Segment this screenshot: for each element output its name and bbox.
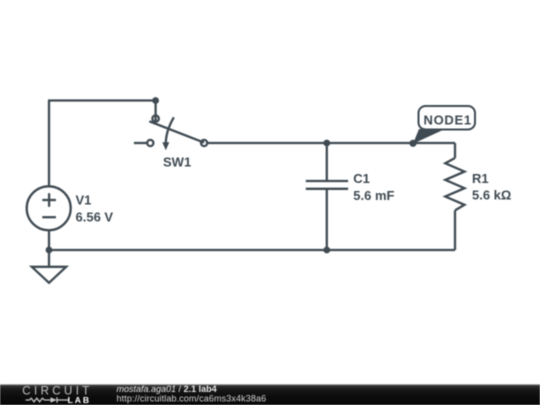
voltage source V1	[27, 186, 71, 230]
svg-text:C1: C1	[353, 171, 370, 186]
ground	[32, 267, 66, 283]
junction dot C1 bottom	[323, 247, 330, 254]
svg-text:http://circuitlab.com/ca6ms3x4: http://circuitlab.com/ca6ms3x4k38a6	[117, 394, 267, 404]
wire switch to right corner	[208, 142, 455, 144]
svg-text:5.6 kΩ: 5.6 kΩ	[472, 188, 511, 203]
wire V1 bottom	[48, 230, 50, 250]
junction dot V1 bottom	[46, 247, 53, 254]
resistor R1	[445, 158, 464, 210]
svg-text:6.56 V: 6.56 V	[76, 209, 114, 224]
junction dot switch top	[152, 97, 159, 104]
NODE1 callout tail	[413, 129, 444, 144]
wire top-left horizontal	[48, 99, 156, 101]
wire ground stub	[48, 250, 50, 267]
wire right vertical bottom	[454, 210, 456, 250]
svg-text:5.6 mF: 5.6 mF	[353, 188, 394, 203]
capacitor C1	[306, 143, 348, 250]
wire left vertical	[48, 101, 50, 187]
footer logo squiggle wire	[26, 397, 69, 403]
NODE1 callout bubble	[419, 106, 476, 130]
svg-text:SW1: SW1	[163, 155, 191, 170]
svg-text:R1: R1	[472, 171, 489, 186]
wire switch pole	[154, 101, 156, 116]
wire bottom	[49, 249, 455, 251]
svg-text:LAB: LAB	[68, 395, 91, 405]
svg-text:mostafa.aga01 / 2.1 lab4: mostafa.aga01 / 2.1 lab4	[117, 384, 217, 394]
junction dot C1 top	[323, 140, 330, 147]
svg-text:NODE1: NODE1	[424, 113, 472, 128]
node NODE1 dot	[409, 140, 416, 147]
footer bar	[0, 384, 540, 405]
svg-text:V1: V1	[76, 193, 92, 208]
switch SW1	[134, 115, 207, 150]
wire right vertical top	[454, 143, 456, 158]
